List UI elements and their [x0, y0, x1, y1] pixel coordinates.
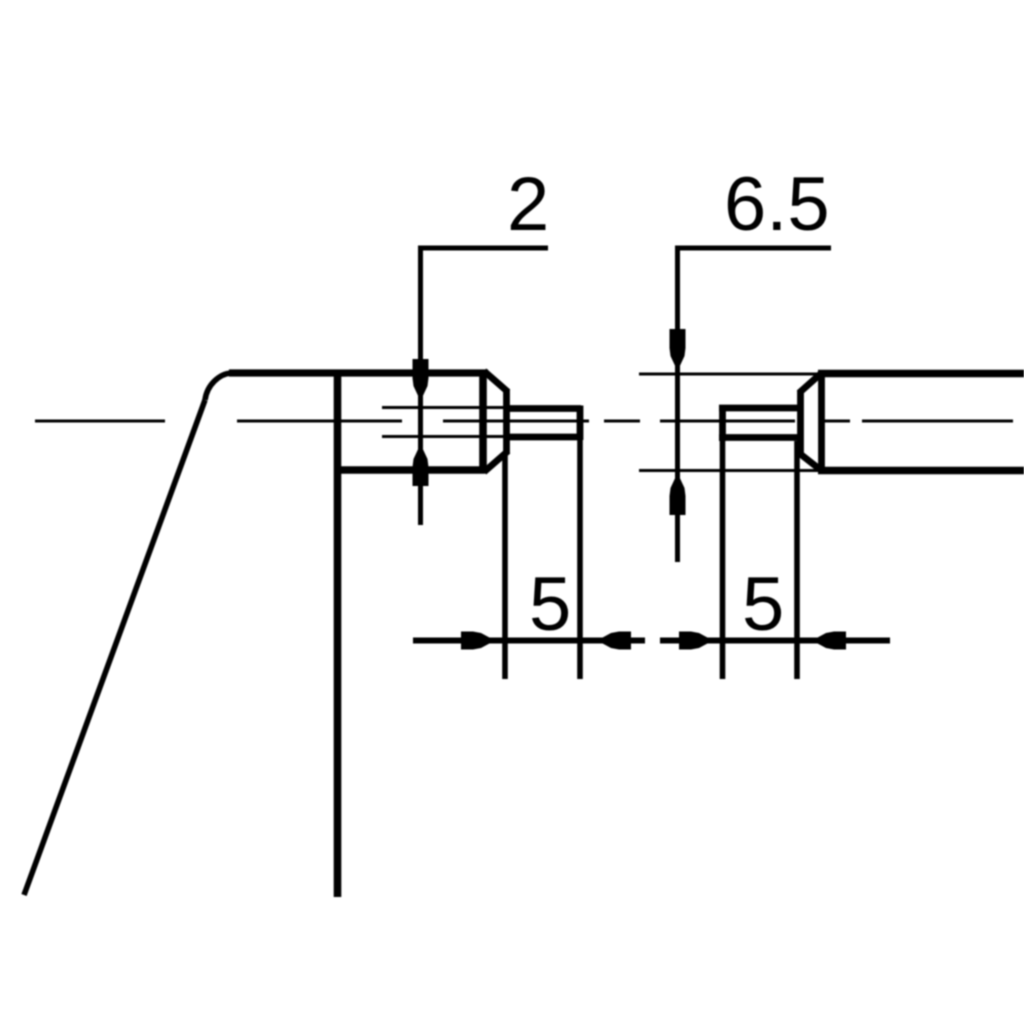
right 5 extension line left — [720, 441, 726, 679]
anvil tip bottom edge — [504, 434, 581, 441]
dimension 2 arrow up — [413, 444, 429, 486]
right 5 arrow left — [812, 632, 846, 650]
diameter extension line top — [639, 372, 818, 375]
anvil block bottom edge — [334, 466, 485, 474]
svg-text:5: 5 — [529, 562, 571, 647]
spindle top chamfer — [799, 373, 822, 394]
anvil tip silhouette line bottom — [382, 435, 504, 438]
dimension 2 leader vertical — [418, 246, 423, 526]
anvil bottom chamfer — [484, 451, 508, 472]
dimension 6.5 leader horizontal — [675, 246, 831, 251]
left 5 arrow left — [597, 632, 631, 650]
dimension 6.5 arrow up — [670, 473, 686, 515]
dimension 6.5 leader vertical — [675, 246, 680, 563]
frame vertical edge — [334, 370, 342, 897]
left 5 extension line right — [577, 440, 583, 679]
spindle tip measuring face — [719, 405, 726, 441]
anvil tip measuring face — [577, 406, 584, 441]
spindle tip bottom edge — [719, 434, 801, 441]
anvil top chamfer — [484, 371, 508, 392]
spindle left face — [818, 370, 825, 474]
anvil tip silhouette line top — [382, 406, 504, 409]
spindle bottom chamfer — [799, 453, 822, 471]
anvil block right edge — [479, 370, 487, 474]
left 5 extension line left — [502, 452, 508, 679]
dimension 2 arrow down — [413, 359, 429, 401]
center line (dash-dot axis) — [35, 419, 1013, 422]
svg-text:5: 5 — [742, 562, 784, 647]
right 5 extension line right — [794, 441, 800, 679]
frame corner arc — [205, 373, 231, 400]
anvil frame top edge — [229, 369, 488, 376]
svg-text:6.5: 6.5 — [724, 162, 830, 247]
spindle tip top edge — [719, 405, 801, 412]
diameter extension line bottom — [639, 469, 818, 472]
svg-text:2: 2 — [507, 162, 549, 247]
dimension 6.5 arrow down — [670, 329, 686, 371]
right 5 arrow right — [679, 632, 713, 650]
dimension 2 leader horizontal — [418, 246, 548, 251]
spindle bottom edge — [818, 467, 1024, 475]
spindle top edge — [818, 370, 1024, 378]
left 5 arrow right — [461, 632, 495, 650]
spindle cone face — [797, 391, 804, 456]
left 5 dimension line — [413, 638, 645, 644]
frame slanted edge — [24, 400, 205, 895]
anvil tip top edge — [504, 405, 581, 412]
right 5 dimension line — [660, 638, 890, 644]
anvil cone face — [503, 389, 510, 454]
